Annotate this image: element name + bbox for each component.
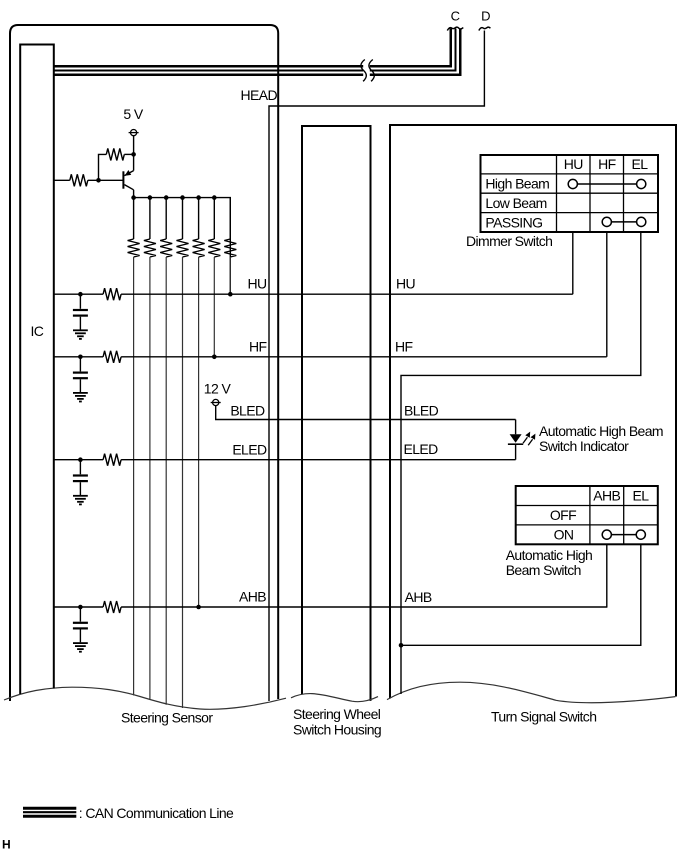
- wire AHB drop: [606, 544, 608, 607]
- resistor bank R3: [160, 198, 172, 705]
- CAN break squiggle right: [369, 60, 374, 82]
- node EL junction: [399, 643, 404, 648]
- svg-text:PASSING: PASSING: [485, 214, 542, 230]
- CAN bus line 1: [54, 29, 451, 67]
- svg-text:Dimmer Switch: Dimmer Switch: [466, 233, 552, 249]
- capacitor C1 + ground: [73, 292, 88, 339]
- svg-text:BLED: BLED: [230, 403, 265, 419]
- svg-text:H: H: [2, 838, 10, 852]
- AHB contact ON AHB-EL: [602, 530, 645, 539]
- resistor bank R1: [128, 198, 140, 696]
- steering wheel switch housing box: [302, 126, 371, 701]
- resistor bank R5: [193, 198, 205, 607]
- svg-text:HU: HU: [247, 276, 267, 292]
- wire ELED: [54, 459, 104, 461]
- svg-text:High Beam: High Beam: [485, 176, 549, 192]
- wire AHB: [54, 606, 104, 608]
- connector D cap: [479, 27, 491, 30]
- resistor bank R4: [177, 198, 189, 708]
- svg-text:HF: HF: [598, 156, 616, 172]
- svg-text:Automatic High Beam: Automatic High Beam: [539, 423, 663, 439]
- CAN bus line 2: [54, 29, 456, 71]
- turn signal switch box: [390, 125, 676, 699]
- transistor Q1: [122, 170, 133, 198]
- wire feedback loop: [99, 154, 107, 180]
- IC box: [20, 45, 54, 695]
- capacitor C3 + ground: [73, 457, 88, 504]
- svg-text:HU: HU: [396, 276, 416, 292]
- svg-text:Turn Signal Switch: Turn Signal Switch: [491, 709, 596, 725]
- svg-text:Beam Switch: Beam Switch: [506, 562, 581, 578]
- capacitor C4 + ground: [73, 605, 88, 652]
- resistor bank R7: [224, 198, 236, 295]
- svg-text:HF: HF: [395, 338, 413, 354]
- LED D1: [508, 420, 523, 460]
- svg-text:Low Beam: Low Beam: [485, 195, 546, 211]
- dimmer switch table: [481, 155, 659, 232]
- wire D to HEAD: [269, 31, 484, 702]
- svg-text:D: D: [481, 9, 490, 24]
- CAN legend symbol: [23, 808, 76, 816]
- wire BLED: [216, 406, 516, 420]
- svg-text:BLED: BLED: [404, 403, 439, 419]
- housing break wave: [291, 694, 378, 702]
- svg-text:12 V: 12 V: [204, 381, 232, 397]
- svg-text:AHB: AHB: [405, 589, 432, 605]
- turn break wave: [387, 682, 675, 703]
- power terminal 5V: [129, 130, 139, 136]
- node HU-R7: [228, 292, 233, 297]
- node emitter junction: [131, 152, 136, 157]
- wire HF: [54, 356, 104, 358]
- resistor base (from IC): [54, 179, 70, 181]
- node HF-R6: [212, 355, 217, 360]
- svg-text:HF: HF: [249, 338, 267, 354]
- svg-text:EL: EL: [633, 488, 650, 504]
- wire dimmer HF drop: [606, 232, 608, 357]
- svg-text:IC: IC: [31, 323, 44, 339]
- svg-text:Automatic High: Automatic High: [506, 547, 593, 563]
- svg-text:ON: ON: [554, 527, 574, 543]
- svg-text:5 V: 5 V: [123, 106, 143, 122]
- svg-text:Switch Indicator: Switch Indicator: [539, 438, 629, 454]
- svg-text:AHB: AHB: [239, 589, 266, 605]
- resistor bank R2: [144, 198, 156, 700]
- wire dimmer EL drop: [401, 232, 641, 694]
- wire dimmer HU drop: [572, 232, 574, 294]
- svg-text:AHB: AHB: [593, 488, 620, 504]
- CAN bus line 3: [54, 29, 460, 75]
- svg-text:HU: HU: [564, 156, 584, 172]
- steering sensor break wave: [4, 687, 286, 709]
- power terminal 12V: [211, 399, 221, 405]
- dimmer contact PASSING HF-EL: [602, 217, 646, 226]
- svg-text:HEAD: HEAD: [241, 87, 278, 103]
- LED light arrows: [523, 432, 535, 446]
- connector C cap: [447, 27, 463, 30]
- resistor feedback: [106, 148, 124, 160]
- node collector rail: [134, 198, 231, 295]
- svg-text:Steering Sensor: Steering Sensor: [121, 710, 213, 726]
- svg-text:: CAN Communication Line: : CAN Communication Line: [79, 805, 234, 821]
- wire HU: [54, 293, 104, 295]
- node AHB-R5: [196, 605, 201, 610]
- svg-text:Steering Wheel: Steering Wheel: [293, 706, 381, 722]
- CAN break gap: [363, 57, 370, 84]
- svg-text:ELED: ELED: [404, 441, 439, 457]
- svg-text:Switch Housing: Switch Housing: [293, 722, 381, 738]
- svg-text:ELED: ELED: [232, 442, 267, 458]
- resistor bank R6: [208, 198, 220, 357]
- dimmer contact High Beam HU-EL: [568, 179, 646, 188]
- svg-text:EL: EL: [632, 156, 649, 172]
- node base junction: [96, 178, 101, 183]
- AHB switch table: [516, 486, 658, 544]
- svg-text:C: C: [451, 9, 460, 24]
- wire AHB-EL drop: [401, 544, 641, 645]
- steering sensor box: [10, 25, 278, 701]
- CAN break squiggle left: [361, 60, 366, 82]
- svg-text:OFF: OFF: [550, 507, 576, 523]
- wire 5V to emitter: [133, 136, 135, 171]
- capacitor C2 + ground: [73, 355, 88, 402]
